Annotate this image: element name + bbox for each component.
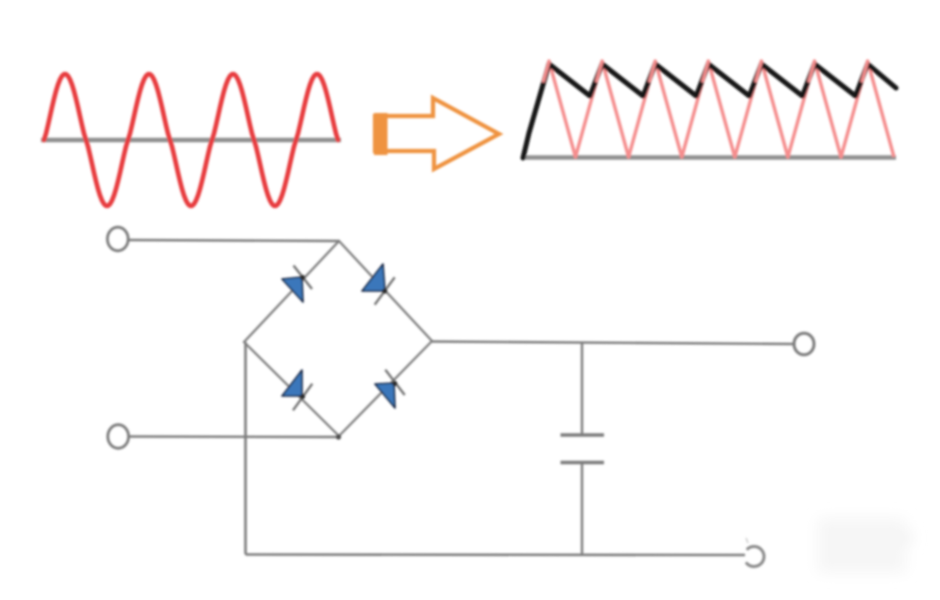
diode D2 (top-right arm) bbox=[362, 264, 395, 305]
terminal T2: bottom input bbox=[108, 425, 129, 449]
arrow outline bbox=[375, 98, 499, 169]
wire: left node down to bottom rail bbox=[246, 342, 746, 555]
bridge diamond wires bbox=[244, 241, 432, 436]
diode D1 (top-left arm) bbox=[282, 266, 312, 303]
junction node: bottom of bridge bbox=[336, 434, 341, 439]
capacitor C1 bottom plate bbox=[561, 461, 605, 464]
node B: output baseline bbox=[521, 155, 896, 160]
diode D3 (bottom-left arm) bbox=[282, 370, 312, 410]
wire: smoothed output envelope (black) bbox=[523, 64, 896, 158]
terminal T1: top input bbox=[107, 227, 128, 251]
stray tick above T4 bbox=[746, 538, 748, 543]
wire: ripple peak caps over envelope bbox=[544, 62, 868, 82]
node A: input sine axis line bbox=[41, 138, 341, 143]
wire: bottom input bbox=[130, 435, 340, 438]
wire: input AC sine waveform bbox=[44, 74, 338, 206]
diode D4 (bottom-right arm) bbox=[375, 370, 405, 408]
wire: right node to output bbox=[432, 342, 793, 345]
wire: capacitor top lead bbox=[581, 343, 583, 434]
capacitor C1 top plate bbox=[561, 433, 605, 436]
wire: rectified ripple waveform (pink) bbox=[523, 61, 894, 157]
terminal T4: bottom output (broken circle) bbox=[747, 546, 764, 566]
wire: top input bbox=[129, 240, 339, 241]
watermark smudge bbox=[818, 518, 913, 573]
arrow tail block bbox=[374, 113, 388, 155]
wire: capacitor bottom lead bbox=[581, 464, 583, 555]
terminal T3: top output bbox=[794, 333, 814, 355]
